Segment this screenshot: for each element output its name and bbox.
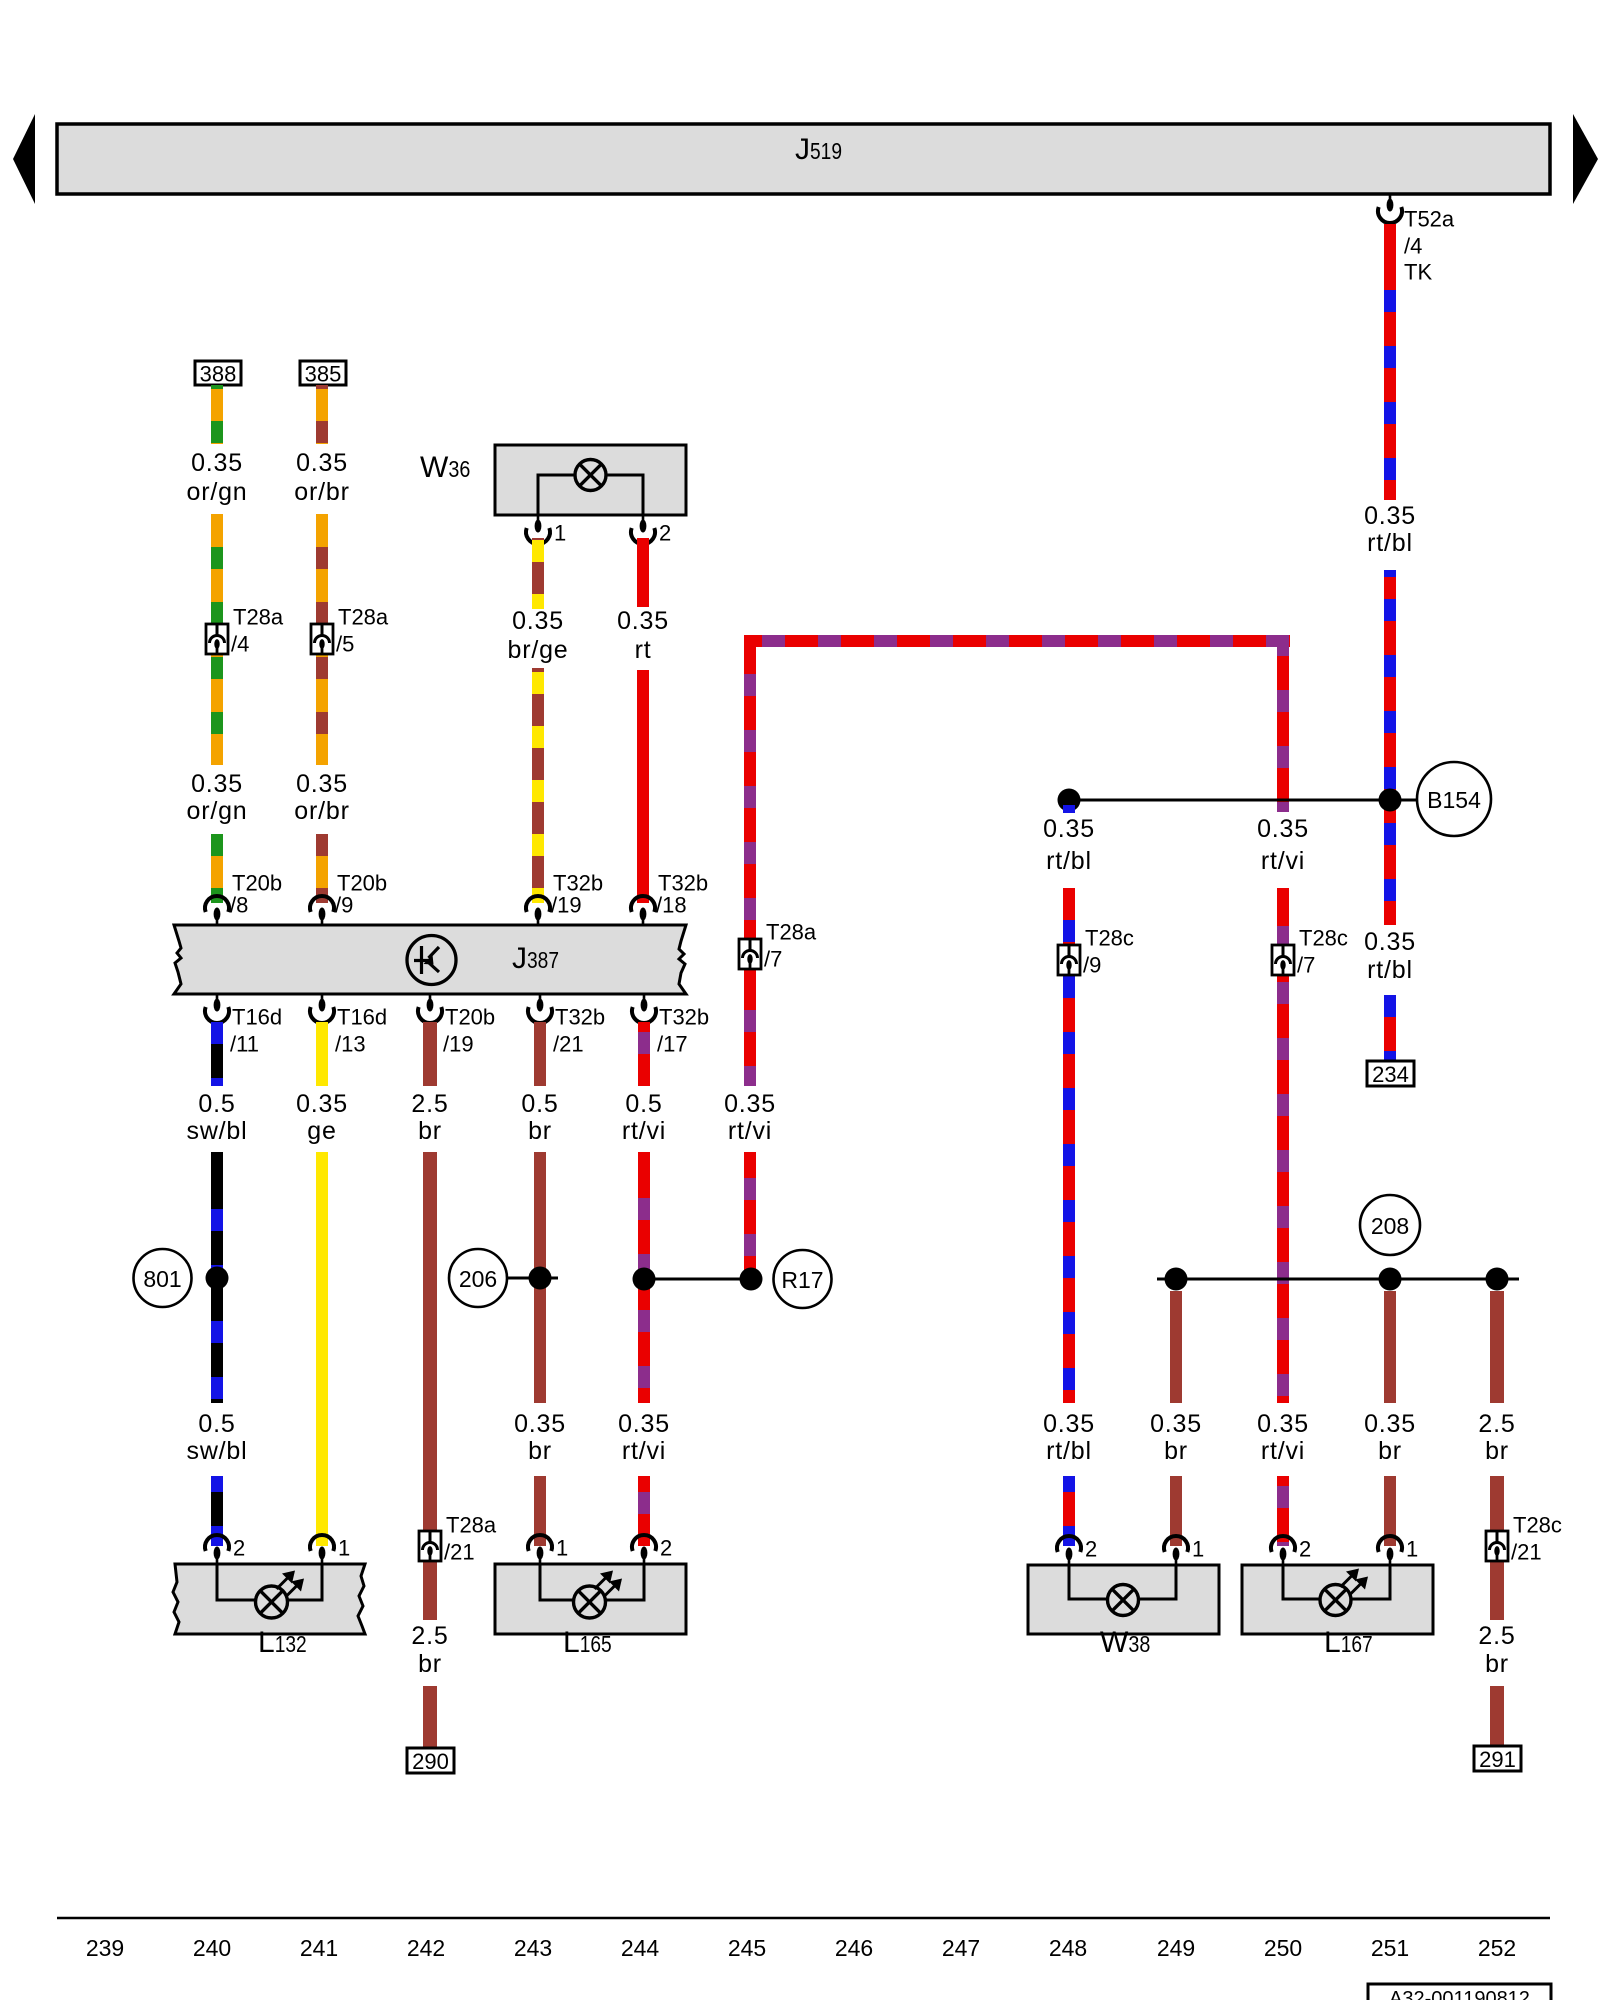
J387 connector T32b/17 bbox=[632, 994, 709, 1057]
svg-text:0.35: 0.35 bbox=[1257, 815, 1309, 843]
current track scale line bbox=[57, 1917, 1550, 1920]
terminal box 385 bbox=[300, 361, 346, 385]
left continuation arrow bbox=[13, 114, 35, 204]
svg-text:br: br bbox=[1485, 1650, 1509, 1678]
J387 connector T16d/11 bbox=[205, 994, 282, 1057]
svg-text:rt/vi: rt/vi bbox=[1261, 1437, 1305, 1465]
svg-text:250: 250 bbox=[1264, 1935, 1302, 1961]
control unit J519 bus bar bbox=[57, 124, 1550, 194]
junction dot end of rt/vi bus at R17 bbox=[740, 1268, 763, 1291]
svg-text:T28c: T28c bbox=[1513, 1513, 1562, 1538]
wire 0.35 br from node 208 to L167/1 bbox=[1364, 1291, 1416, 1546]
svg-text:241: 241 bbox=[300, 1935, 338, 1961]
L165 pin 2 bbox=[632, 1535, 672, 1564]
svg-text:rt/vi: rt/vi bbox=[1261, 847, 1305, 875]
svg-text:/19: /19 bbox=[551, 893, 582, 918]
J387 connector T20b/8 bbox=[205, 871, 282, 926]
svg-text:T28c: T28c bbox=[1085, 926, 1134, 951]
lamp component L132 bbox=[173, 1564, 365, 1659]
in-line connector T28a/7 bbox=[739, 920, 817, 972]
svg-text:TK: TK bbox=[1404, 260, 1432, 285]
svg-text:T28c: T28c bbox=[1299, 926, 1348, 951]
svg-text:/13: /13 bbox=[335, 1032, 366, 1057]
J387 connector T16d/13 bbox=[310, 994, 387, 1057]
svg-text:2: 2 bbox=[659, 521, 671, 546]
svg-text:0.35: 0.35 bbox=[724, 1090, 776, 1118]
svg-text:or/gn: or/gn bbox=[187, 478, 248, 506]
svg-text:239: 239 bbox=[86, 1935, 124, 1961]
node circle 206 bbox=[449, 1249, 507, 1307]
svg-text:206: 206 bbox=[459, 1266, 497, 1292]
svg-text:/4: /4 bbox=[231, 632, 249, 657]
svg-text:br: br bbox=[1485, 1437, 1509, 1465]
svg-text:/9: /9 bbox=[1083, 953, 1101, 978]
svg-text:2: 2 bbox=[233, 1536, 245, 1561]
svg-text:0.35: 0.35 bbox=[191, 770, 243, 798]
svg-text:0.35: 0.35 bbox=[1364, 1410, 1416, 1438]
svg-text:W38: W38 bbox=[1100, 1626, 1150, 1659]
svg-text:2: 2 bbox=[1085, 1537, 1097, 1562]
svg-text:rt/bl: rt/bl bbox=[1367, 529, 1413, 557]
W36 pin 1 bbox=[526, 515, 566, 546]
svg-text:385: 385 bbox=[305, 362, 342, 387]
svg-text:T16d: T16d bbox=[232, 1005, 282, 1030]
J387 connector T20b/9 bbox=[310, 871, 387, 926]
svg-text:249: 249 bbox=[1157, 1935, 1195, 1961]
svg-text:0.35: 0.35 bbox=[1043, 815, 1095, 843]
svg-text:2.5: 2.5 bbox=[411, 1090, 448, 1118]
svg-text:801: 801 bbox=[143, 1266, 181, 1292]
svg-text:0.35: 0.35 bbox=[1150, 1410, 1202, 1438]
wire 0.5/0.35 rt/vi from J387 T32b/17 to L165/2 bbox=[618, 1022, 670, 1546]
svg-text:B154: B154 bbox=[1427, 787, 1481, 813]
wire 0.35 rt/vi right branch down to L167/2 bbox=[1257, 647, 1309, 1546]
node circle R17 bbox=[774, 1250, 832, 1308]
L167 pin 2 bbox=[1271, 1536, 1311, 1565]
J387 connector T20b/19 bbox=[418, 994, 495, 1057]
J387 connector T32b/21 bbox=[528, 994, 605, 1057]
svg-text:or/br: or/br bbox=[294, 797, 349, 825]
wire 0.35 br from node 208 to W38/1 bbox=[1150, 1291, 1202, 1546]
terminal box 388 bbox=[195, 361, 241, 385]
svg-text:ge: ge bbox=[307, 1117, 336, 1145]
svg-text:/19: /19 bbox=[443, 1032, 474, 1057]
svg-text:290: 290 bbox=[412, 1749, 449, 1774]
svg-text:W36: W36 bbox=[420, 451, 470, 484]
junction dot 208 left bbox=[1165, 1268, 1188, 1291]
svg-text:0.35: 0.35 bbox=[512, 607, 564, 635]
L132 pin 2 bbox=[205, 1535, 245, 1564]
svg-text:0.35: 0.35 bbox=[1364, 502, 1416, 530]
svg-text:rt/bl: rt/bl bbox=[1046, 847, 1092, 875]
in-line connector T28c/9 bbox=[1058, 926, 1134, 978]
svg-text:br: br bbox=[528, 1437, 552, 1465]
svg-text:/21: /21 bbox=[553, 1032, 584, 1057]
svg-text:0.35: 0.35 bbox=[617, 607, 669, 635]
in-line connector T28a/5 bbox=[311, 605, 389, 657]
node 208 link line bbox=[1157, 1278, 1519, 1281]
svg-text:246: 246 bbox=[835, 1935, 873, 1961]
svg-text:208: 208 bbox=[1371, 1213, 1409, 1239]
svg-text:242: 242 bbox=[407, 1935, 445, 1961]
junction dot on T52a wire bbox=[1379, 789, 1402, 812]
svg-text:245: 245 bbox=[728, 1935, 766, 1961]
svg-text:A32-001190812: A32-001190812 bbox=[1389, 1988, 1530, 2000]
svg-text:T52a: T52a bbox=[1404, 207, 1455, 232]
svg-text:L167: L167 bbox=[1324, 1626, 1373, 1659]
wire 0.35 ge from J387 T16d/13 to L132/1 bbox=[296, 1022, 348, 1546]
svg-text:2: 2 bbox=[660, 1536, 672, 1561]
node circle 801 bbox=[134, 1249, 192, 1307]
svg-text:0.5: 0.5 bbox=[198, 1090, 235, 1118]
svg-text:1: 1 bbox=[556, 1536, 568, 1561]
svg-text:/5: /5 bbox=[336, 632, 354, 657]
svg-text:234: 234 bbox=[1372, 1062, 1409, 1087]
svg-text:sw/bl: sw/bl bbox=[187, 1117, 248, 1145]
svg-text:rt: rt bbox=[635, 636, 652, 664]
svg-text:0.5: 0.5 bbox=[625, 1090, 662, 1118]
svg-text:243: 243 bbox=[514, 1935, 552, 1961]
svg-text:/7: /7 bbox=[1297, 953, 1315, 978]
svg-text:247: 247 bbox=[942, 1935, 980, 1961]
svg-text:240: 240 bbox=[193, 1935, 231, 1961]
svg-text:0.35: 0.35 bbox=[1257, 1410, 1309, 1438]
wire 0.35 or/gn from 388 to J387 T20b/8 bbox=[187, 385, 248, 903]
wire 0.35 rt/bl from T52a/4 to node B154 and terminal 234 bbox=[1364, 224, 1416, 1061]
wire 0.5 sw/bl from J387 T16d/11 to L132/2 bbox=[187, 1022, 248, 1546]
junction dot 208 right bbox=[1486, 1268, 1509, 1291]
wire 0.35 rt/vi bus with corner from T28a/7 to right side bbox=[724, 635, 1290, 1279]
in-line connector T28c/7 bbox=[1272, 926, 1348, 978]
svg-text:rt/bl: rt/bl bbox=[1367, 956, 1413, 984]
svg-text:T28a: T28a bbox=[766, 920, 817, 945]
W38 pin 2 bbox=[1057, 1536, 1097, 1565]
svg-text:T28a: T28a bbox=[338, 605, 389, 630]
wire 0.35 or/br from 385 to J387 T20b/9 bbox=[294, 385, 349, 903]
node R17 link line bbox=[644, 1278, 751, 1281]
svg-text:br/ge: br/ge bbox=[508, 636, 569, 664]
L167 pin 1 bbox=[1378, 1536, 1418, 1565]
svg-text:291: 291 bbox=[1479, 1747, 1516, 1772]
svg-text:1: 1 bbox=[338, 1536, 350, 1561]
L132 pin 1 bbox=[310, 1535, 350, 1564]
in-line connector T28c/21 bbox=[1486, 1513, 1562, 1565]
svg-text:0.5: 0.5 bbox=[198, 1410, 235, 1438]
L165 pin 1 bbox=[528, 1535, 568, 1564]
svg-text:L165: L165 bbox=[563, 1626, 612, 1659]
terminal box 291 bbox=[1474, 1746, 1521, 1771]
svg-text:J387: J387 bbox=[512, 942, 559, 975]
node circle B154 bbox=[1417, 762, 1491, 836]
W38 pin 1 bbox=[1164, 1536, 1204, 1565]
node circle 208 bbox=[1360, 1195, 1420, 1255]
svg-text:/7: /7 bbox=[764, 947, 782, 972]
wire 0.5/0.35 br from J387 T32b/21 to L165/1 bbox=[514, 1022, 566, 1546]
svg-text:1: 1 bbox=[1406, 1537, 1418, 1562]
svg-text:/4: /4 bbox=[1404, 234, 1422, 259]
diagram number box A32-001190812 bbox=[1368, 1984, 1551, 2000]
svg-text:0.35: 0.35 bbox=[618, 1410, 670, 1438]
svg-text:br: br bbox=[418, 1650, 442, 1678]
svg-text:/17: /17 bbox=[657, 1032, 688, 1057]
lamp component L167 bbox=[1242, 1565, 1433, 1659]
J387 connector T32b/18 bbox=[631, 871, 708, 926]
svg-text:0.5: 0.5 bbox=[521, 1090, 558, 1118]
svg-text:252: 252 bbox=[1478, 1935, 1516, 1961]
control unit J387 bbox=[174, 925, 686, 994]
svg-text:2.5: 2.5 bbox=[411, 1622, 448, 1650]
lamp component L165 bbox=[495, 1564, 686, 1659]
svg-text:T32b: T32b bbox=[659, 1005, 709, 1030]
svg-text:br: br bbox=[418, 1117, 442, 1145]
svg-text:rt/vi: rt/vi bbox=[728, 1117, 772, 1145]
svg-text:R17: R17 bbox=[781, 1267, 823, 1293]
svg-text:388: 388 bbox=[200, 362, 237, 387]
wire 2.5 br from J387 T20b/19 to terminal 290 bbox=[411, 1022, 448, 1748]
svg-text:1: 1 bbox=[554, 521, 566, 546]
connector T52a/4 TK on J519 bbox=[1378, 194, 1455, 285]
right continuation arrow bbox=[1573, 114, 1598, 204]
current track numbers bbox=[86, 1935, 1516, 1961]
junction dot 208 middle bbox=[1379, 1268, 1402, 1291]
svg-text:0.35: 0.35 bbox=[296, 449, 348, 477]
svg-text:T16d: T16d bbox=[337, 1005, 387, 1030]
W36 pin 2 bbox=[631, 515, 671, 546]
svg-text:2: 2 bbox=[1299, 1537, 1311, 1562]
wire 2.5 br from node 208 to terminal 291 bbox=[1478, 1291, 1515, 1746]
svg-text:0.35: 0.35 bbox=[296, 1090, 348, 1118]
svg-text:rt/bl: rt/bl bbox=[1046, 1437, 1092, 1465]
junction dot rt/vi at R17 bbox=[633, 1268, 656, 1291]
in-line connector T28a/21 bbox=[419, 1513, 497, 1565]
svg-text:251: 251 bbox=[1371, 1935, 1409, 1961]
junction dot on rt/bl branch bbox=[1058, 789, 1081, 812]
svg-text:L132: L132 bbox=[258, 1626, 307, 1659]
svg-text:T28a: T28a bbox=[233, 605, 284, 630]
terminal box 234 bbox=[1367, 1061, 1414, 1086]
svg-text:/11: /11 bbox=[230, 1032, 259, 1057]
terminal box 290 bbox=[407, 1748, 454, 1773]
svg-text:T20b: T20b bbox=[445, 1005, 495, 1030]
junction dot node 206 bbox=[529, 1267, 552, 1290]
svg-text:T32b: T32b bbox=[555, 1005, 605, 1030]
lamp component W36 bbox=[420, 445, 686, 515]
svg-text:/21: /21 bbox=[1511, 1540, 1542, 1565]
svg-text:sw/bl: sw/bl bbox=[187, 1437, 248, 1465]
wire 0.35 br/ge from W36/1 to J387 T32b/19 bbox=[508, 538, 569, 903]
node line to B154 bbox=[1069, 799, 1416, 802]
J387 connector T32b/19 bbox=[526, 871, 603, 926]
svg-text:/9: /9 bbox=[335, 893, 353, 918]
svg-text:244: 244 bbox=[621, 1935, 660, 1961]
svg-text:/18: /18 bbox=[656, 893, 687, 918]
node 206 link line bbox=[507, 1277, 558, 1280]
svg-text:/21: /21 bbox=[444, 1540, 475, 1565]
svg-text:1: 1 bbox=[1192, 1537, 1204, 1562]
svg-text:rt/vi: rt/vi bbox=[622, 1117, 666, 1145]
svg-text:rt/vi: rt/vi bbox=[622, 1437, 666, 1465]
junction dot node 801 bbox=[206, 1267, 229, 1290]
in-line connector T28a/4 bbox=[206, 605, 284, 657]
svg-text:0.35: 0.35 bbox=[191, 449, 243, 477]
wire 0.35 rt/bl from B154 node to W38/2 bbox=[1043, 805, 1095, 1546]
wire 0.35 rt from W36/2 to J387 T32b/18 bbox=[617, 538, 669, 903]
lamp component W38 bbox=[1028, 1565, 1219, 1659]
svg-text:0.35: 0.35 bbox=[296, 770, 348, 798]
svg-text:br: br bbox=[1378, 1437, 1402, 1465]
svg-text:/8: /8 bbox=[230, 893, 248, 918]
svg-text:0.35: 0.35 bbox=[1043, 1410, 1095, 1438]
svg-text:2.5: 2.5 bbox=[1478, 1622, 1515, 1650]
svg-text:248: 248 bbox=[1049, 1935, 1087, 1961]
svg-text:2.5: 2.5 bbox=[1478, 1410, 1515, 1438]
svg-text:0.35: 0.35 bbox=[514, 1410, 566, 1438]
svg-text:or/gn: or/gn bbox=[187, 797, 248, 825]
svg-text:br: br bbox=[1164, 1437, 1188, 1465]
svg-text:T28a: T28a bbox=[446, 1513, 497, 1538]
svg-text:or/br: or/br bbox=[294, 478, 349, 506]
svg-text:0.35: 0.35 bbox=[1364, 928, 1416, 956]
svg-text:J519: J519 bbox=[795, 133, 842, 166]
svg-text:br: br bbox=[528, 1117, 552, 1145]
